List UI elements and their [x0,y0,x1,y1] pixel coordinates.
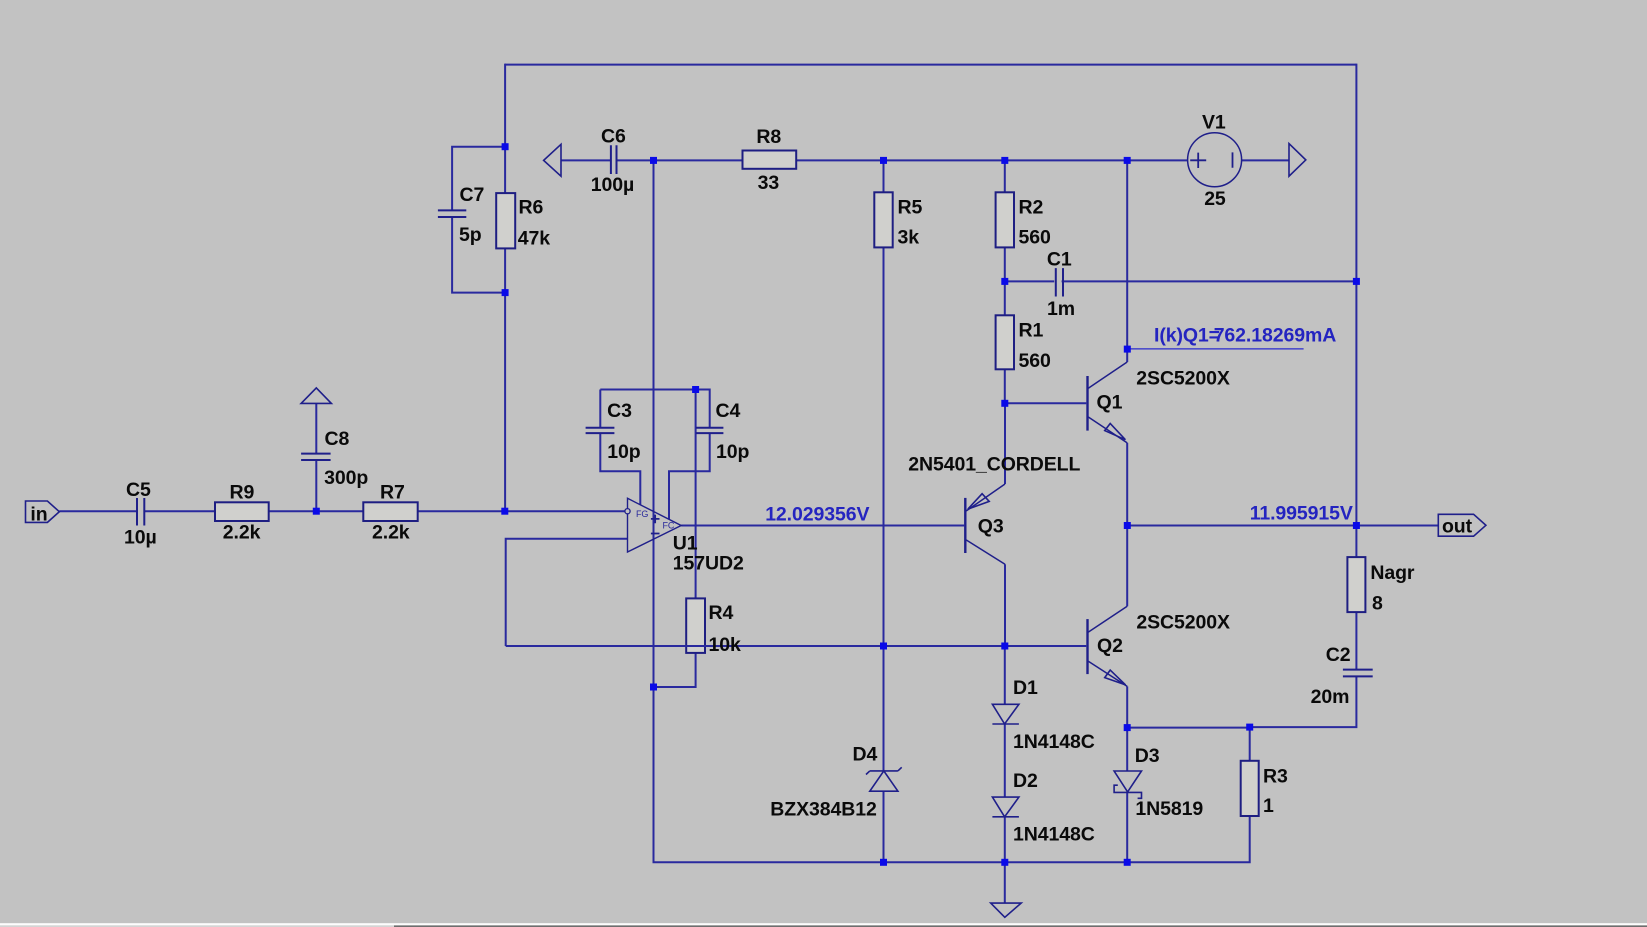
svg-text:2.2k: 2.2k [372,522,410,544]
svg-text:C4: C4 [716,400,741,422]
svg-text:10k: 10k [709,634,741,656]
svg-text:2SC5200X: 2SC5200X [1136,612,1230,634]
svg-text:1N4148C: 1N4148C [1013,824,1095,846]
svg-text:R9: R9 [230,482,255,504]
svg-text:C8: C8 [325,428,350,450]
svg-text:C7: C7 [460,184,485,206]
svg-text:8: 8 [1372,593,1383,615]
svg-text:C6: C6 [601,126,626,148]
svg-text:762.18269mA: 762.18269mA [1214,325,1337,347]
svg-text:10µ: 10µ [124,526,157,548]
svg-text:R6: R6 [519,197,544,219]
svg-text:FG: FG [636,509,648,519]
svg-text:R1: R1 [1019,320,1044,342]
svg-text:560: 560 [1019,350,1051,372]
svg-text:300p: 300p [324,467,368,489]
svg-text:R2: R2 [1019,197,1044,219]
svg-text:47k: 47k [518,228,550,250]
svg-text:Q3: Q3 [978,516,1004,538]
svg-text:C5: C5 [126,479,151,501]
svg-text:C1: C1 [1047,249,1072,271]
svg-text:12.029356V: 12.029356V [765,504,869,526]
svg-text:BZX384B12: BZX384B12 [770,799,877,821]
svg-text:R7: R7 [380,482,405,504]
svg-text:1N4148C: 1N4148C [1013,731,1095,753]
svg-text:10p: 10p [607,441,640,463]
svg-text:D1: D1 [1013,677,1038,699]
svg-text:in: in [30,504,47,526]
svg-text:V1: V1 [1202,112,1226,134]
svg-text:1: 1 [1263,795,1274,817]
svg-text:560: 560 [1019,227,1051,249]
svg-text:R4: R4 [709,602,734,624]
svg-text:3k: 3k [898,227,920,249]
svg-text:C2: C2 [1326,644,1351,666]
svg-text:2.2k: 2.2k [223,522,261,544]
svg-text:Q1: Q1 [1097,392,1123,414]
svg-text:2N5401_CORDELL: 2N5401_CORDELL [908,454,1080,476]
svg-text:10p: 10p [716,441,749,463]
svg-text:100µ: 100µ [591,174,634,196]
svg-text:1m: 1m [1047,298,1075,320]
svg-text:33: 33 [758,172,780,194]
svg-text:R8: R8 [756,126,781,148]
svg-text:FC: FC [663,521,675,531]
svg-text:U1: U1 [673,533,698,555]
svg-text:20m: 20m [1311,686,1350,708]
svg-text:Q2: Q2 [1097,635,1123,657]
svg-text:out: out [1442,516,1473,538]
svg-text:R3: R3 [1263,766,1288,788]
svg-text:1N5819: 1N5819 [1135,798,1203,820]
svg-text:C3: C3 [607,400,632,422]
svg-text:D3: D3 [1135,745,1160,767]
svg-text:2SC5200X: 2SC5200X [1136,368,1230,390]
svg-text:25: 25 [1204,188,1226,210]
svg-text:R5: R5 [898,197,923,219]
svg-text:5p: 5p [459,224,482,246]
svg-text:D2: D2 [1013,770,1038,792]
svg-text:11.995915V: 11.995915V [1250,503,1353,525]
svg-text:D4: D4 [853,743,878,765]
svg-text:157UD2: 157UD2 [673,553,744,575]
svg-text:Nagr: Nagr [1370,562,1415,584]
svg-text:I(k)Q1=: I(k)Q1= [1154,325,1220,347]
